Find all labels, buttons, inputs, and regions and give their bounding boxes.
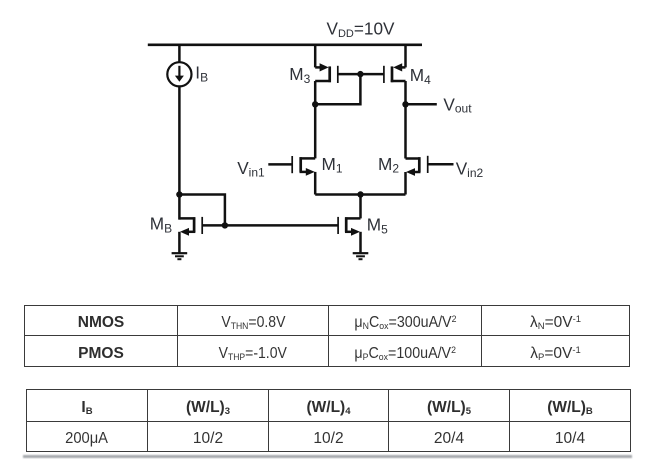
- wire Vin2 gate lead: [428, 163, 454, 166]
- svg-text:Vin1: Vin1: [237, 158, 265, 179]
- wire M5 drain: [359, 195, 362, 219]
- label M2: [378, 154, 399, 176]
- transistor M1: [292, 156, 315, 176]
- label VDD=10V: [327, 18, 396, 40]
- table transistor sizing: [26, 389, 631, 452]
- wire Vout: [406, 103, 437, 106]
- wire VDD rail: [148, 43, 422, 46]
- svg-text:IB: IB: [195, 63, 208, 85]
- svg-text:M3: M3: [289, 64, 310, 86]
- wire MB drain stub: [178, 195, 181, 220]
- node D: M3 drain junction: [312, 101, 318, 107]
- svg-text:MB: MB: [150, 214, 172, 236]
- svg-text:M4: M4: [410, 65, 431, 87]
- label M5: [367, 215, 388, 237]
- label M1: [322, 154, 343, 176]
- node Vout: [402, 101, 408, 107]
- wire MB diode connection: [179, 195, 225, 226]
- wire M1 drain to M3 drain: [314, 81, 317, 158]
- svg-text:Vout: Vout: [443, 94, 472, 115]
- wire Vin1 gate lead: [268, 163, 292, 166]
- transistor M3: [315, 63, 338, 83]
- label Vout: [443, 94, 472, 115]
- node tail: source-coupled junction: [357, 191, 363, 197]
- svg-text:M5: M5: [367, 215, 388, 237]
- node C: mirror gate junction: [357, 71, 363, 77]
- wire M5 source to ground: [359, 232, 362, 253]
- svg-text:VDD=10V: VDD=10V: [327, 18, 396, 40]
- wire MB source to ground: [178, 232, 181, 253]
- wire M2 source vertical: [404, 172, 407, 195]
- wire bias gate net MB to M5: [225, 224, 338, 227]
- transistor M2: [406, 156, 428, 176]
- label M4: [410, 65, 431, 87]
- ground MB source: [172, 253, 188, 259]
- table device parameters: [24, 305, 630, 367]
- current source IB: [167, 62, 191, 86]
- svg-text:M2: M2: [378, 154, 399, 176]
- label M3: [289, 64, 310, 86]
- wire IB branch top: [178, 44, 181, 63]
- wire M3 diode connection: [315, 74, 360, 104]
- svg-text:M1: M1: [322, 154, 343, 176]
- ground M5 source: [353, 253, 369, 259]
- label Vin1: [237, 158, 265, 179]
- transistor M5: [338, 217, 360, 236]
- page bottom shadow: [23, 455, 632, 458]
- label IB: [195, 63, 208, 85]
- wire M3 M4 gate net: [338, 73, 384, 76]
- wire tail common-source: [315, 193, 405, 196]
- label MB: [150, 214, 172, 236]
- transistor MB: [179, 217, 225, 236]
- node B: MB gate junction: [222, 222, 228, 228]
- wire M4 source to rail: [404, 44, 407, 68]
- wire IB branch bottom: [178, 86, 181, 194]
- wire M3 source to rail: [314, 44, 317, 68]
- svg-text:Vin2: Vin2: [456, 159, 484, 180]
- transistor M4: [384, 63, 406, 83]
- wire M1 source vertical: [314, 172, 317, 195]
- label Vin2: [456, 159, 484, 180]
- node A: MB drain junction: [176, 191, 182, 197]
- wire M2 drain to M4 drain: [404, 81, 407, 159]
